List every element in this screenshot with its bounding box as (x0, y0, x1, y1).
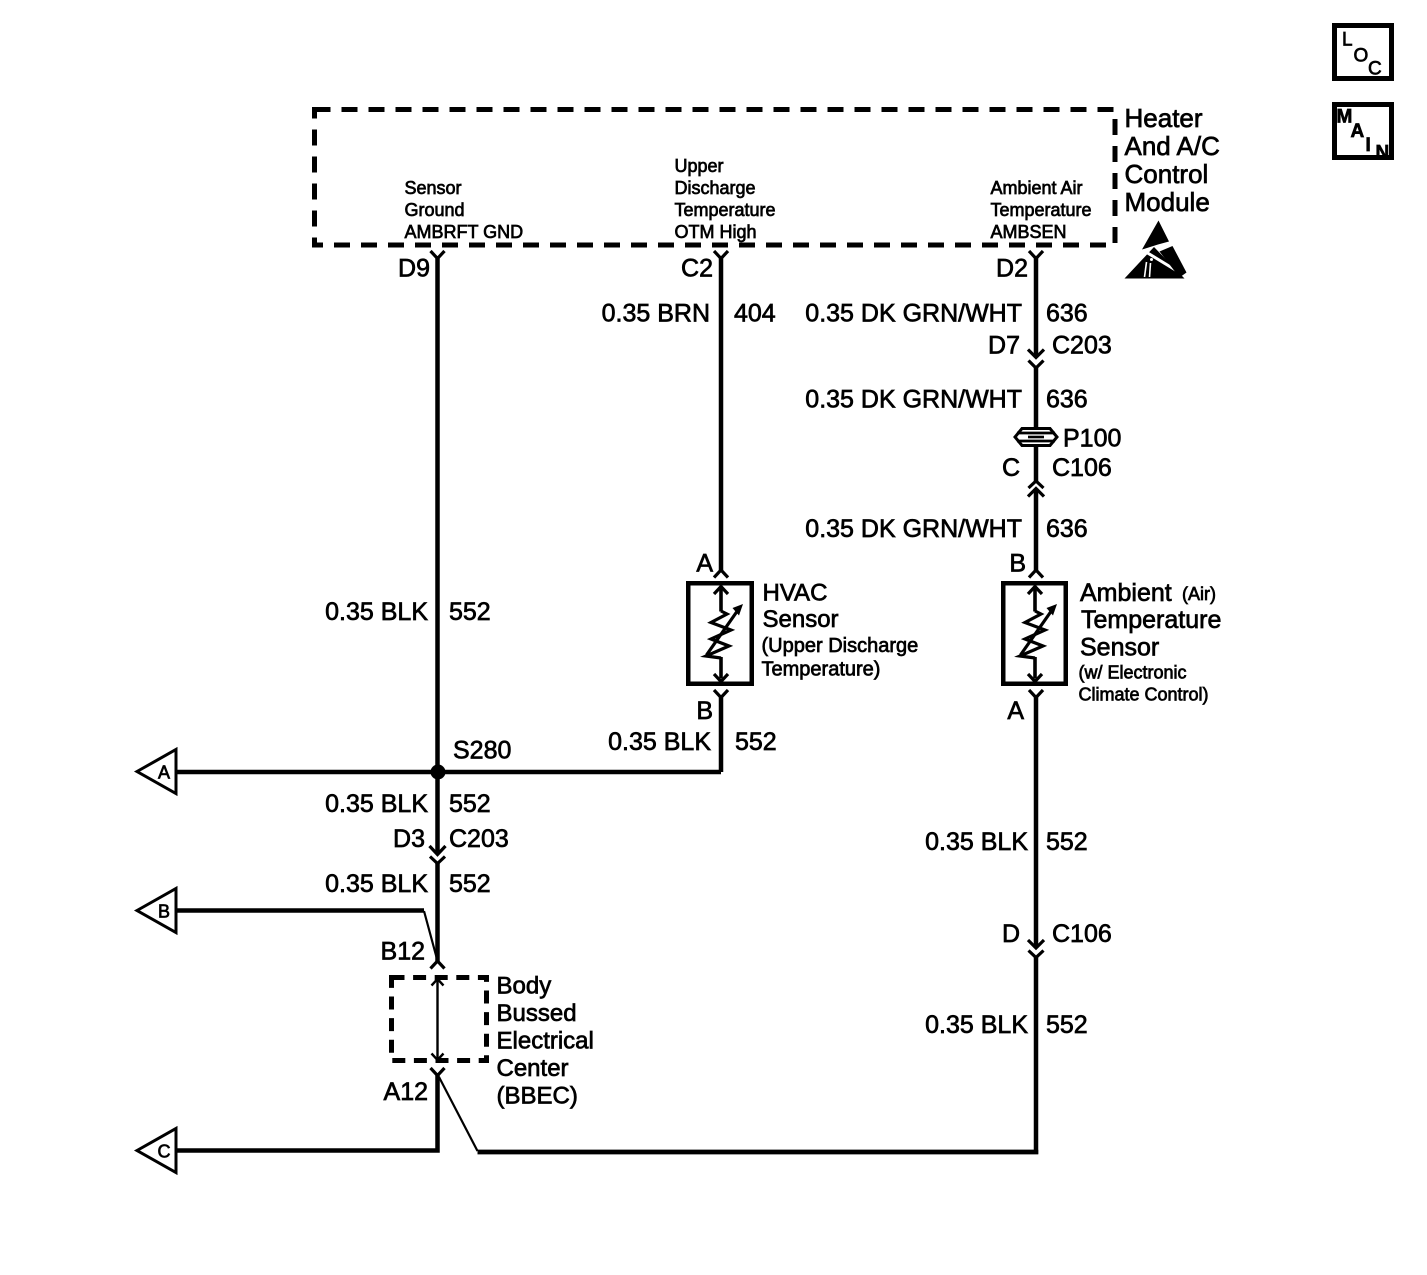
svg-text:C203: C203 (1052, 332, 1112, 360)
svg-text:552: 552 (735, 728, 777, 756)
svg-text:0.35 BLK: 0.35 BLK (325, 870, 428, 898)
svg-text:C: C (1002, 454, 1020, 482)
svg-text:A12: A12 (384, 1078, 428, 1106)
svg-text:B12: B12 (381, 938, 425, 966)
svg-text:C106: C106 (1052, 920, 1112, 948)
svg-text:D7: D7 (988, 332, 1020, 360)
svg-text:0.35 BLK: 0.35 BLK (925, 828, 1028, 856)
svg-text:D2: D2 (996, 255, 1028, 283)
svg-text:Ambient Air: Ambient Air (991, 178, 1083, 198)
svg-text:B: B (1009, 550, 1026, 578)
svg-text:And A/C: And A/C (1125, 131, 1220, 161)
svg-text:D3: D3 (393, 825, 425, 853)
svg-text:Sensor: Sensor (405, 178, 462, 198)
svg-text:552: 552 (1046, 828, 1088, 856)
svg-text:Sensor: Sensor (763, 606, 839, 633)
svg-text:0.35 BRN: 0.35 BRN (602, 300, 710, 328)
svg-text:HVAC: HVAC (763, 580, 828, 607)
svg-text:0.35 DK GRN/WHT: 0.35 DK GRN/WHT (805, 515, 1022, 543)
svg-text:636: 636 (1046, 300, 1088, 328)
svg-text:(BBEC): (BBEC) (497, 1083, 578, 1110)
svg-text:Electrical: Electrical (497, 1028, 594, 1055)
svg-text:C106: C106 (1052, 454, 1112, 482)
svg-text:0.35 BLK: 0.35 BLK (325, 790, 428, 818)
svg-text:B: B (158, 902, 170, 922)
svg-text:Ambient: Ambient (1080, 579, 1172, 607)
svg-text:Temperature: Temperature (991, 200, 1092, 220)
svg-text:Sensor: Sensor (1080, 634, 1159, 662)
svg-text:A: A (696, 550, 713, 578)
svg-text:A: A (158, 763, 170, 783)
svg-text:C: C (1368, 59, 1382, 80)
svg-text:L: L (1342, 30, 1353, 51)
svg-text:636: 636 (1046, 515, 1088, 543)
svg-text:552: 552 (449, 790, 491, 818)
svg-text:636: 636 (1046, 386, 1088, 414)
svg-text:552: 552 (449, 870, 491, 898)
svg-text:Bussed: Bussed (497, 1000, 577, 1027)
svg-text:0.35 BLK: 0.35 BLK (925, 1011, 1028, 1039)
svg-text:0.35 BLK: 0.35 BLK (325, 598, 428, 626)
svg-text:404: 404 (734, 300, 776, 328)
svg-text:Temperature): Temperature) (762, 659, 881, 681)
svg-text:C2: C2 (681, 255, 713, 283)
svg-text:(Upper Discharge: (Upper Discharge (762, 635, 919, 657)
svg-text:0.35 DK GRN/WHT: 0.35 DK GRN/WHT (805, 300, 1022, 328)
svg-text:Control: Control (1125, 159, 1209, 189)
svg-text:Upper: Upper (675, 156, 724, 176)
svg-text:552: 552 (449, 598, 491, 626)
svg-text:Center: Center (497, 1055, 569, 1082)
svg-text:AMBRFT GND: AMBRFT GND (405, 222, 524, 242)
svg-text:Discharge: Discharge (675, 178, 756, 198)
svg-text:(Air): (Air) (1182, 584, 1216, 604)
svg-text:I: I (1366, 135, 1371, 156)
svg-text:0.35 DK GRN/WHT: 0.35 DK GRN/WHT (805, 386, 1022, 414)
svg-text:A: A (1351, 121, 1365, 142)
svg-text:D9: D9 (398, 255, 430, 283)
svg-text:P100: P100 (1063, 425, 1121, 453)
svg-text:Body: Body (497, 973, 552, 1000)
svg-text:C: C (158, 1142, 171, 1162)
svg-text:Temperature: Temperature (675, 200, 776, 220)
svg-text:Module: Module (1125, 187, 1210, 217)
svg-text:D: D (1002, 920, 1020, 948)
svg-text:O: O (1354, 46, 1369, 67)
svg-text:C203: C203 (449, 825, 509, 853)
svg-text:Climate Control): Climate Control) (1079, 685, 1209, 705)
svg-text:552: 552 (1046, 1011, 1088, 1039)
svg-text:B: B (696, 697, 713, 725)
svg-text:A: A (1007, 697, 1024, 725)
svg-text:Temperature: Temperature (1081, 606, 1221, 634)
svg-text:0.35 BLK: 0.35 BLK (608, 728, 711, 756)
svg-text:Ground: Ground (405, 200, 465, 220)
svg-text:Heater: Heater (1125, 103, 1203, 133)
svg-text:S280: S280 (453, 737, 511, 765)
svg-text:OTM High: OTM High (675, 222, 757, 242)
svg-text:N: N (1376, 143, 1390, 164)
svg-text:AMBSEN: AMBSEN (991, 222, 1067, 242)
svg-text:(w/ Electronic: (w/ Electronic (1079, 663, 1187, 683)
